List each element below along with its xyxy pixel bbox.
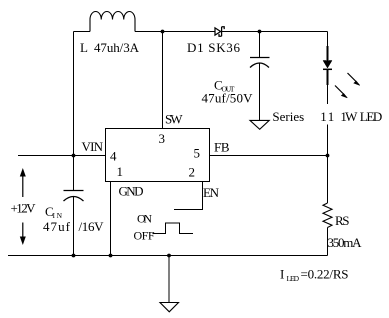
wire: FB line from IC to LED string: [210, 155, 328, 157]
svg-text:=0.22/RS: =0.22/RS: [301, 267, 349, 282]
wire: COUT stem from top rail: [259, 32, 261, 58]
LED D2 (series string): [323, 46, 332, 85]
wire: top rail from inductor to diode: [135, 31, 215, 33]
inductor L1 47uh/3A: [90, 12, 135, 32]
svg-text:LED: LED: [287, 274, 300, 283]
LED light arrow 1: [348, 73, 360, 85]
svg-text:OFF: OFF: [134, 229, 155, 243]
wire: bottom rail: [8, 255, 328, 257]
svg-text:LED: LED: [360, 109, 383, 124]
node: FB junction dot: [326, 154, 330, 158]
node: VIN junction dot: [72, 154, 76, 158]
svg-text:EN: EN: [203, 185, 220, 200]
svg-text:ON: ON: [137, 212, 152, 226]
node: SW junction dot: [161, 30, 165, 34]
wire: SW vertical from top rail to IC: [162, 32, 164, 129]
svg-text:4: 4: [110, 149, 117, 164]
svg-text:Series: Series: [272, 109, 304, 124]
svg-text:2: 2: [189, 165, 196, 180]
resistor RS: [323, 203, 332, 228]
svg-text:11: 11: [320, 109, 334, 124]
wire: top rail left segment: [74, 31, 91, 33]
svg-text:I: I: [280, 267, 284, 282]
EN control pulse waveform: [153, 223, 194, 234]
capacitor COUT: [250, 58, 270, 68]
svg-text:5: 5: [194, 146, 201, 161]
op-amp U1 outline (switching regulator IC body): [106, 129, 210, 182]
node: GND pin bottom junction dot: [109, 254, 113, 258]
svg-text:RS: RS: [335, 213, 350, 228]
svg-text:350mA: 350mA: [328, 235, 363, 250]
formula ILED=0.22/RS: [280, 267, 349, 284]
capacitor CIN: [64, 191, 84, 202]
wire: right rail down to LED: [327, 32, 329, 61]
diode D1 SK36 (schottky): [215, 27, 224, 37]
node: COUT junction dot: [258, 30, 262, 34]
node: ground stem junction dot: [167, 254, 171, 258]
wire: right rail LED to resistor: [327, 85, 329, 203]
svg-text:1W: 1W: [340, 109, 358, 124]
wire: CIN to bottom rail: [73, 197, 75, 256]
wire: GND pin to bottom rail: [110, 182, 112, 256]
wire: EN pin stub: [174, 182, 203, 210]
svg-text:L: L: [80, 40, 88, 55]
wire: resistor to bottom rail: [327, 228, 329, 256]
svg-text:/16V: /16V: [79, 219, 105, 234]
svg-text:1: 1: [117, 164, 124, 179]
wire: left vertical from top rail to CIN: [73, 32, 75, 191]
svg-text:47uf/50V: 47uf/50V: [202, 91, 254, 106]
wire: stem to ground symbol: [168, 256, 170, 303]
value label COUT: [214, 78, 235, 94]
svg-text:47uh/3A: 47uh/3A: [94, 40, 140, 55]
svg-text:3: 3: [159, 131, 166, 146]
svg-text:GND: GND: [119, 184, 144, 199]
svg-text:+12V: +12V: [11, 201, 37, 216]
wire: top rail from diode to top-right corner: [222, 31, 328, 33]
wire: VIN input line: [18, 155, 105, 157]
value label CIN: [45, 204, 63, 220]
ground (bottom center): [160, 303, 179, 312]
ground (under COUT): [250, 120, 269, 129]
node: CIN bottom junction dot: [72, 254, 76, 258]
svg-text:VIN: VIN: [82, 139, 104, 154]
LED light arrow 2: [335, 86, 347, 98]
source +12V arrow: [20, 168, 26, 245]
svg-text:SW: SW: [165, 112, 183, 127]
wire: COUT to ground: [259, 64, 261, 121]
svg-text:FB: FB: [214, 140, 230, 155]
svg-text:47uf: 47uf: [43, 219, 71, 234]
svg-text:D1 SK36: D1 SK36: [187, 40, 241, 55]
